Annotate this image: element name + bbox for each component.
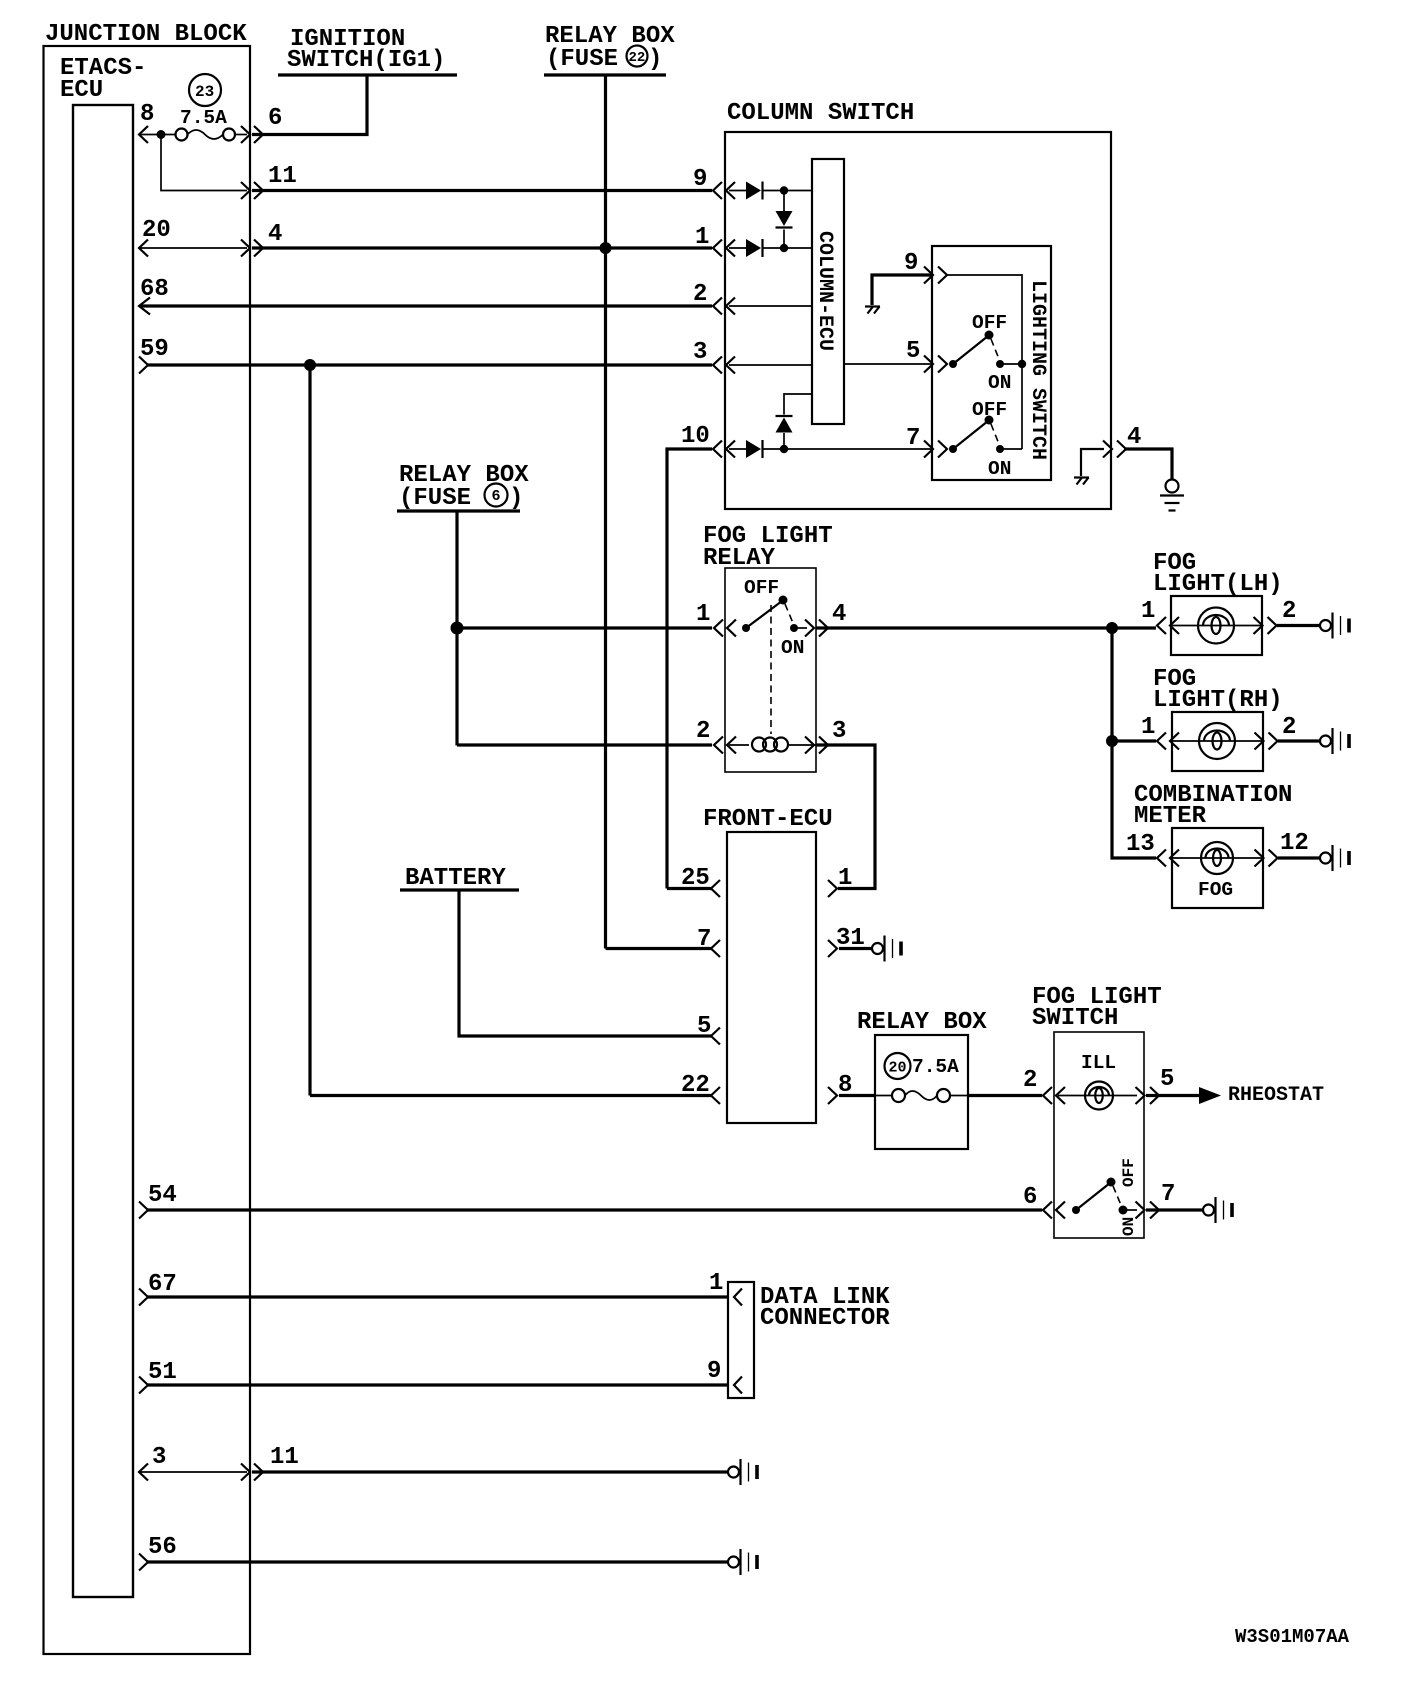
dashed travel fog switch (1113, 1186, 1121, 1205)
wire 11 to column switch 9 (252, 189, 712, 192)
fog light LH box (1171, 596, 1262, 655)
wire 59 branch down to FRONT-ECU 22 (308, 365, 311, 1096)
svg-text:10: 10 (681, 423, 710, 450)
column-ecu box (812, 159, 844, 424)
svg-text:LIGHT(RH): LIGHT(RH) (1153, 687, 1283, 714)
wire 11b to ground (252, 1470, 728, 1473)
svg-text:2: 2 (1282, 598, 1296, 625)
lamp fog light RH (1172, 740, 1263, 742)
ground (connector) wire 11b (728, 1459, 757, 1485)
wire pin 31 to ground (839, 947, 872, 950)
svg-text:6: 6 (492, 488, 501, 505)
svg-text:ON: ON (1120, 1217, 1138, 1236)
svg-text:2: 2 (693, 281, 707, 308)
svg-text:SWITCH: SWITCH (1032, 1005, 1118, 1032)
svg-text:2: 2 (1282, 714, 1296, 741)
svg-text:CONNECTOR: CONNECTOR (760, 1305, 890, 1332)
ground (connector) fog light LH (1320, 613, 1349, 639)
column switch box (725, 132, 1111, 509)
junction block J/B box (44, 46, 251, 1654)
svg-text:(FUSE: (FUSE (546, 46, 618, 73)
svg-text:13: 13 (1126, 831, 1155, 858)
relay coil (729, 744, 749, 746)
svg-text:ILL: ILL (1081, 1052, 1116, 1074)
wire common down to switch 2 (1021, 364, 1023, 449)
svg-text:12: 12 (1280, 830, 1309, 857)
ETACS-ECU connector box (73, 105, 133, 1597)
wire inside lighting switch from 9 (947, 275, 1022, 364)
wire fog RH to ground (1278, 739, 1320, 742)
combination meter box (1172, 828, 1263, 908)
wire pin54 to fog light switch (147, 1208, 1042, 1211)
wire 59 branch to pin 22 (310, 1094, 711, 1097)
svg-text:3: 3 (693, 339, 707, 366)
svg-text:6: 6 (1023, 1184, 1037, 1211)
wire pin67 to data link connector 1 (147, 1295, 728, 1298)
wire ON contact to pin 4 (794, 627, 807, 629)
svg-text:6: 6 (268, 105, 282, 132)
lighting switch contact 1 (949, 360, 957, 368)
wire ON contact 2 to common (1000, 448, 1022, 450)
data link connector box (728, 1282, 754, 1398)
arrowhead to rheostat (1199, 1087, 1221, 1104)
svg-text:OFF: OFF (1120, 1158, 1138, 1187)
svg-text:5: 5 (1160, 1066, 1174, 1093)
diode D4 (pin 10) (729, 448, 933, 450)
svg-text:W3S01M07AA: W3S01M07AA (1235, 1626, 1350, 1648)
lamp ILL (1058, 1095, 1137, 1097)
node pin9/diode (780, 186, 788, 194)
connector chevrons at J/B edge row 11b (241, 1464, 263, 1481)
svg-text:54: 54 (148, 1182, 177, 1209)
wire pin51 to data link connector 9 (147, 1383, 728, 1386)
svg-text:23: 23 (195, 83, 214, 101)
svg-text:9: 9 (707, 1358, 721, 1385)
lamp fog light LH (1171, 625, 1262, 627)
wire pin 5 to rheostat (1146, 1094, 1202, 1097)
ON contact relay (790, 624, 798, 632)
diode D2 (pin 1) (729, 247, 812, 249)
svg-text:4: 4 (1127, 424, 1141, 451)
earth ground (column switch 4) (1160, 480, 1184, 511)
fuse number circle 22 (627, 46, 648, 67)
wire meter to ground (1278, 856, 1320, 859)
wire relay 4 to fog lights (816, 626, 1156, 629)
wire relay 3 to front-ecu 1 (816, 745, 875, 889)
wire branch to RH (1112, 739, 1156, 742)
lighting switch contact 2 (949, 445, 957, 453)
svg-text:4: 4 (832, 601, 846, 628)
dashed travel switch 1 (991, 339, 999, 359)
svg-text:OFF: OFF (972, 312, 1007, 334)
svg-text:67: 67 (148, 1271, 177, 1298)
node pin10/diode (780, 445, 788, 453)
fuse number circle 20 (885, 1053, 911, 1079)
ground (connector) fog light switch 7 (1203, 1197, 1232, 1223)
svg-text:FOG: FOG (1198, 879, 1233, 901)
svg-text:5: 5 (697, 1013, 711, 1040)
wire pin 8 to relay box fuse 20 (839, 1094, 876, 1097)
fog light RH box (1172, 712, 1263, 771)
wire pin59 (147, 363, 712, 366)
wire pin56 to ground (147, 1560, 728, 1563)
connector chevrons at J/B edge row 6 (241, 126, 263, 143)
node wire59 branch (304, 359, 316, 371)
node fog light LH branch (1106, 622, 1118, 634)
relay box 20 box (875, 1035, 968, 1149)
wire fuse6 feed (455, 511, 458, 746)
svg-text:11: 11 (268, 163, 297, 190)
wire pin3 to column-ecu (729, 364, 812, 366)
svg-text:20: 20 (889, 1060, 907, 1077)
wire ON contact 1 to common (1000, 363, 1022, 365)
node fuse6 feed / relay 1 (451, 622, 464, 635)
svg-text:): ) (509, 485, 523, 512)
fog light switch box (1054, 1032, 1144, 1238)
svg-text:SWITCH(IG1): SWITCH(IG1) (287, 47, 445, 74)
connector chevrons at J/B edge row 4 (241, 240, 263, 257)
svg-text:JUNCTION BLOCK: JUNCTION BLOCK (45, 21, 247, 48)
fog light relay box (725, 568, 816, 772)
wire branch down to RH and meter (1112, 628, 1156, 858)
wire pin8 to fuse (139, 134, 175, 136)
svg-text:COLUMN-ECU: COLUMN-ECU (813, 231, 836, 351)
node lighting switch common (1018, 360, 1026, 368)
svg-text:1: 1 (696, 601, 710, 628)
svg-text:COLUMN SWITCH: COLUMN SWITCH (727, 100, 914, 127)
svg-text:): ) (648, 46, 662, 73)
svg-text:9: 9 (904, 250, 918, 277)
ON contact switch 2 (996, 445, 1004, 453)
wire pin 7 to ground (1146, 1208, 1203, 1211)
svg-text:METER: METER (1134, 803, 1207, 830)
ground (connector) front-ecu 31 (872, 936, 901, 962)
chassis ground (lighting switch 9) (865, 307, 880, 314)
fuse 20 (875, 1095, 892, 1097)
svg-text:11: 11 (270, 1444, 299, 1471)
svg-text:LIGHT(LH): LIGHT(LH) (1153, 571, 1283, 598)
wire 10 from front-ecu 25 riser (667, 449, 712, 889)
connector chevrons at J/B edge row 11 (241, 182, 263, 199)
dashed travel relay (785, 604, 793, 623)
fog switch contact arm (1072, 1206, 1080, 1214)
svg-text:7.5A: 7.5A (180, 107, 227, 129)
svg-text:5: 5 (906, 338, 920, 365)
svg-text:1: 1 (838, 865, 852, 892)
svg-text:1: 1 (1141, 714, 1155, 741)
svg-text:1: 1 (695, 224, 709, 251)
node fuse23 left (157, 130, 166, 139)
svg-text:RHEOSTAT: RHEOSTAT (1228, 1084, 1324, 1107)
wire column-ecu to lighting switch 5 (844, 363, 933, 365)
ON contact fog switch (1119, 1206, 1128, 1215)
wire pin3 (139, 1471, 247, 1473)
wire riser to pin 25 (667, 887, 711, 890)
wire fuse22 vertical feed (604, 75, 607, 949)
svg-text:RELAY BOX: RELAY BOX (857, 1009, 987, 1036)
fuse number circle 23 (189, 74, 221, 106)
svg-text:7: 7 (1161, 1181, 1175, 1208)
wire from fuse23 dot down to row 11 (161, 135, 247, 191)
fuse number circle 6 (485, 484, 508, 507)
svg-text:(FUSE: (FUSE (399, 485, 471, 512)
svg-text:BATTERY: BATTERY (405, 865, 506, 892)
node pin1/diode (780, 244, 788, 252)
chassis ground (column switch 4) (1074, 478, 1089, 485)
svg-text:OFF: OFF (972, 399, 1007, 421)
wire ignition to pin 8 fuse (252, 75, 367, 135)
lighting switch box (932, 246, 1051, 480)
svg-text:7.5A: 7.5A (912, 1056, 959, 1078)
wire pin2 to column-ecu (729, 305, 812, 307)
front-ecu box (727, 832, 816, 1123)
diode D5 from pin10 node to column-ecu (784, 394, 812, 449)
svg-text:4: 4 (268, 221, 282, 248)
wire fog LH to ground (1277, 624, 1320, 627)
svg-text:22: 22 (629, 50, 646, 66)
wire pin68 (141, 304, 712, 307)
diode D3 between node9 and node1 (783, 191, 785, 249)
wire fuse6 to fog light relay 2 (457, 743, 712, 746)
wire 4 to column switch 1 (252, 246, 712, 249)
svg-text:2: 2 (696, 718, 710, 745)
ground (connector) wire 56 (728, 1549, 757, 1575)
svg-text:7: 7 (906, 425, 920, 452)
svg-text:FRONT-ECU: FRONT-ECU (703, 806, 833, 833)
svg-text:LIGHTING SWITCH: LIGHTING SWITCH (1026, 280, 1049, 460)
svg-text:3: 3 (152, 1444, 166, 1471)
lamp fog indicator (1172, 857, 1263, 859)
wire contact to pin 7 (1123, 1209, 1137, 1211)
relay coil dashed actuator (770, 605, 772, 734)
svg-text:ON: ON (988, 372, 1011, 394)
svg-text:68: 68 (140, 276, 169, 303)
wire pin4 internal to chassis ground (1081, 449, 1104, 476)
wire fuse22 to pin 7 (606, 947, 712, 950)
svg-text:ON: ON (988, 458, 1011, 480)
wire fuse6 to fog light relay 1 (457, 626, 712, 629)
svg-text:8: 8 (140, 101, 154, 128)
svg-text:OFF: OFF (744, 577, 779, 599)
fuse 23 (176, 129, 188, 141)
wire fuse 20 to fog light switch 2 (968, 1094, 1042, 1097)
svg-text:2: 2 (1023, 1067, 1037, 1094)
node fog light RH branch (1106, 735, 1118, 747)
dashed travel switch 2 (991, 424, 999, 444)
ON contact switch 1 (996, 360, 1004, 368)
ground (connector) fog light RH (1320, 728, 1349, 754)
wire lighting switch 9 to ground (872, 275, 931, 305)
svg-text:3: 3 (832, 718, 846, 745)
svg-text:1: 1 (1141, 598, 1155, 625)
svg-text:9: 9 (693, 166, 707, 193)
wire battery to pin 5 (459, 890, 711, 1036)
ground (connector) combination meter (1320, 845, 1349, 871)
node fuse22 feed joins wire 4 (600, 242, 612, 254)
wire pin20 (139, 247, 247, 249)
relay contact arm (742, 624, 750, 632)
svg-text:ON: ON (781, 637, 804, 659)
diode D1 (pin 9) (729, 190, 812, 192)
svg-text:1: 1 (709, 1270, 723, 1297)
svg-text:59: 59 (140, 336, 169, 363)
svg-text:51: 51 (148, 1359, 177, 1386)
svg-text:ECU: ECU (60, 77, 103, 104)
svg-text:56: 56 (148, 1534, 177, 1561)
wire pin4 to earth ground (1124, 449, 1172, 479)
